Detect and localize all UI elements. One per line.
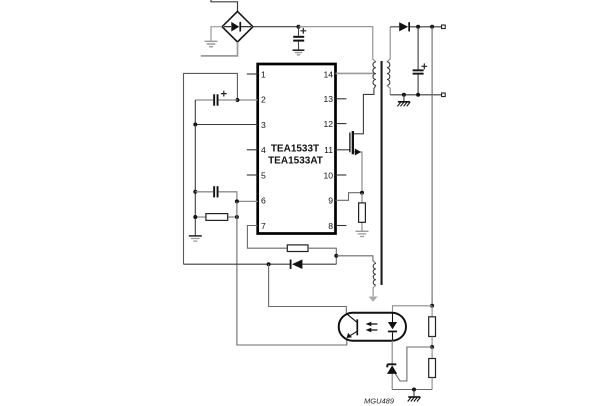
wire: C2 left to pin3 node bbox=[194, 100, 196, 125]
wire: left bus pin3 to ground bbox=[194, 125, 196, 236]
junction: out+ / C4 bbox=[416, 25, 420, 29]
svg-text:9: 9 bbox=[328, 196, 333, 206]
junction: C3 left node bbox=[193, 190, 197, 194]
pin 1 bbox=[247, 69, 266, 79]
junction: R1 right bbox=[235, 215, 239, 219]
wire: pin 6 bbox=[237, 200, 258, 202]
wire: diode D1 row bbox=[184, 263, 337, 265]
optocoupler U2 phototransistor bbox=[346, 313, 357, 340]
optocoupler U2 LED bbox=[388, 313, 397, 341]
svg-text:1: 1 bbox=[261, 69, 266, 79]
pin 8 bbox=[328, 221, 346, 231]
resistor R1 (pin6 - left bus) bbox=[195, 214, 237, 221]
wire: pin 2 to junction bbox=[237, 99, 257, 101]
IC label TEA1533T / TEA1533AT bbox=[268, 143, 323, 166]
junction: out+ / feedback bbox=[430, 25, 434, 29]
junction: pin 6 node bbox=[235, 199, 239, 203]
optocoupler U2 light arrows bbox=[366, 322, 378, 333]
wire: zener anode to ground rail bbox=[391, 374, 393, 390]
wire: pin 14 to primary winding bbox=[336, 72, 375, 74]
wire: secondary top to D2 bbox=[390, 26, 399, 28]
wire: pin 7 loop to R2 bbox=[247, 226, 287, 249]
junction: feedback / LED feed bbox=[430, 304, 434, 308]
diode D2 (output rectifier) bbox=[399, 22, 410, 31]
wire: AC mains input line 2 (bridge bottom) bbox=[201, 42, 238, 56]
ground (output, hatched) bbox=[397, 95, 410, 107]
wire: aux tap to aux winding bbox=[336, 256, 376, 264]
junction: D1 row tee bbox=[267, 262, 271, 266]
svg-text:14: 14 bbox=[323, 69, 333, 79]
capacitor C2 (pin 2, polarized) bbox=[195, 91, 237, 106]
junction: source sense node bbox=[360, 191, 364, 195]
transformer T1 core bbox=[381, 61, 383, 285]
wire: pin6 node down to opto emitter line bbox=[237, 201, 347, 345]
svg-text:11: 11 bbox=[324, 145, 333, 155]
junction: out- / C4 bbox=[416, 93, 420, 97]
svg-text:8: 8 bbox=[328, 221, 333, 231]
transformer T1 primary winding bbox=[373, 62, 376, 86]
ground (secondary, hatched) bbox=[408, 390, 421, 402]
IC U1 TEA1533T / TEA1533AT bbox=[258, 64, 336, 234]
pin 5 bbox=[247, 170, 266, 180]
svg-text:7: 7 bbox=[261, 221, 266, 231]
capacitor C4 (output, polarized) bbox=[413, 27, 428, 95]
junction: pin 2 node bbox=[235, 98, 239, 102]
pin 6 bbox=[261, 196, 266, 206]
junction: HV rail / bulk cap bbox=[297, 25, 301, 29]
wire: D2 to output + terminal bbox=[410, 26, 442, 28]
pin 13 bbox=[323, 94, 346, 104]
junction: divider mid node bbox=[430, 345, 434, 349]
wire: outer loop pin2 node to left rail bbox=[184, 73, 238, 264]
pin 7 bbox=[261, 221, 266, 231]
resistor R4 (lower divider) bbox=[429, 347, 436, 390]
pin 4 bbox=[247, 145, 266, 155]
capacitor C3 (pin 6) bbox=[195, 186, 237, 201]
svg-text:4: 4 bbox=[261, 145, 266, 155]
svg-text:MGU489: MGU489 bbox=[364, 397, 395, 406]
pin 11 bbox=[324, 145, 333, 155]
junction: pin 3 node bbox=[193, 123, 197, 127]
MOSFET Q1 (internal drain connection) bbox=[336, 85, 376, 192]
pin 10 bbox=[323, 170, 346, 180]
junction: secondary ground bbox=[412, 388, 416, 392]
resistor R5 (sense) bbox=[359, 193, 366, 231]
terminal: output + bbox=[442, 25, 446, 29]
svg-text:6: 6 bbox=[261, 196, 266, 206]
wire: D1 tee down to opto collector bbox=[269, 264, 347, 313]
wire: pin 9 to sense node bbox=[336, 193, 363, 201]
wire: output - rail bbox=[390, 94, 441, 96]
pin 14 bbox=[323, 69, 333, 79]
wire: bridge left vertex to mains ground bbox=[211, 27, 222, 41]
junction: R1 left bbox=[193, 215, 197, 219]
wire: LED cathode down to zener bbox=[391, 341, 393, 364]
wire: pin 3 bbox=[195, 124, 257, 126]
wire: LED anode feed bbox=[393, 306, 433, 313]
svg-text:10: 10 bbox=[323, 170, 333, 180]
junction: aux winding tap bbox=[334, 254, 338, 258]
diode D1 (points left) bbox=[290, 259, 303, 269]
pin 3 bbox=[261, 120, 266, 130]
zener / reference D3 bbox=[387, 364, 397, 374]
wire: HV+ rail cap to transformer primary bbox=[299, 27, 376, 62]
optocoupler U2 body bbox=[339, 313, 406, 341]
svg-text:2: 2 bbox=[261, 95, 266, 105]
svg-text:12: 12 bbox=[323, 119, 333, 129]
pin 12 bbox=[323, 119, 346, 129]
junction: out- ground bbox=[402, 93, 406, 97]
svg-text:TEA1533AT: TEA1533AT bbox=[268, 155, 323, 166]
ground (bulk cap) bbox=[293, 50, 305, 55]
wire: AC mains input line 1 (top) bbox=[211, 0, 238, 12]
ground (sense resistor) bbox=[356, 231, 369, 236]
transformer T1 secondary winding bbox=[387, 27, 390, 95]
wire: R2 to aux node bbox=[308, 248, 336, 264]
wire: HV+ rail bridge to bulk cap bbox=[253, 26, 299, 28]
wire: secondary ground rail bbox=[392, 389, 432, 391]
svg-text:3: 3 bbox=[261, 120, 266, 130]
ground (left bus) bbox=[189, 236, 202, 241]
resistor R2 (pin 7) bbox=[287, 245, 308, 252]
wire: zener ref link bbox=[395, 347, 432, 381]
transformer T1 auxiliary winding bbox=[373, 264, 376, 297]
capacitor C1 (HV bulk, polarized) bbox=[293, 27, 306, 50]
svg-text:5: 5 bbox=[261, 170, 266, 180]
pin 2 bbox=[261, 95, 266, 105]
pin 9 bbox=[328, 196, 333, 206]
terminal: output - bbox=[442, 93, 446, 97]
resistor R3 (upper divider) bbox=[429, 306, 436, 347]
svg-text:TEA1533T: TEA1533T bbox=[271, 143, 319, 154]
svg-text:13: 13 bbox=[323, 94, 333, 104]
ground (mains side) bbox=[205, 41, 218, 46]
wire: feedback line out+ to opto bbox=[431, 27, 433, 306]
bridge rectifier B1 bbox=[222, 11, 253, 42]
ground (aux winding, arrow) bbox=[369, 297, 378, 302]
